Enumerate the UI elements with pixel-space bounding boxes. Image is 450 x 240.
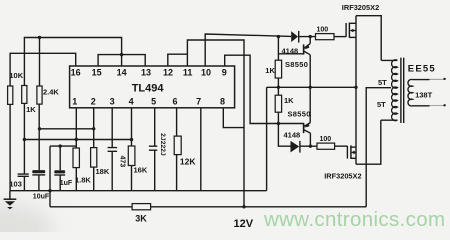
svg-text:10: 10 [201,67,211,77]
svg-text:12: 12 [163,67,173,77]
svg-text:1K: 1K [26,105,36,114]
svg-text:2J222J: 2J222J [159,133,166,156]
svg-text:10uF: 10uF [33,194,50,201]
svg-text:IRF3205X2: IRF3205X2 [324,171,361,180]
svg-text:1K: 1K [284,96,294,105]
svg-text:14: 14 [117,67,127,77]
svg-text:S8550: S8550 [285,60,308,69]
svg-text:www.cntronics.com: www.cntronics.com [263,208,445,231]
svg-text:2: 2 [91,96,96,106]
svg-text:5T: 5T [377,100,386,109]
svg-text:TL494: TL494 [132,82,165,94]
svg-text:2.4K: 2.4K [43,87,59,96]
svg-text:5: 5 [151,96,156,106]
svg-text:100: 100 [320,136,332,143]
svg-text:7: 7 [196,96,201,106]
svg-text:138T: 138T [415,91,433,100]
svg-text:9: 9 [222,67,227,77]
svg-text:S8550: S8550 [288,109,311,118]
svg-text:EE55: EE55 [408,64,436,75]
svg-text:IRF3205X2: IRF3205X2 [342,3,379,12]
svg-text:12V: 12V [234,218,254,230]
svg-text:6: 6 [172,96,177,106]
svg-text:3K: 3K [135,214,147,224]
svg-text:13: 13 [141,67,151,77]
svg-text:3: 3 [110,96,115,106]
svg-text:1uF: 1uF [60,180,73,187]
svg-text:11: 11 [183,67,193,77]
svg-text:10K: 10K [9,71,23,80]
svg-text:15: 15 [92,67,102,77]
svg-text:103: 103 [9,180,22,189]
svg-text:4148: 4148 [284,131,301,140]
svg-text:4: 4 [129,96,134,106]
svg-text:5T: 5T [378,78,387,87]
svg-text:1: 1 [72,96,77,106]
svg-text:1K: 1K [265,66,275,75]
svg-text:16K: 16K [134,165,148,174]
svg-text:4148: 4148 [282,46,299,55]
svg-text:100: 100 [317,26,329,33]
svg-text:8: 8 [220,96,225,106]
svg-text:16: 16 [71,67,81,77]
svg-text:473: 473 [119,155,126,167]
svg-text:12K: 12K [180,157,196,167]
svg-text:1.8K: 1.8K [75,175,91,184]
svg-text:18K: 18K [96,167,110,176]
